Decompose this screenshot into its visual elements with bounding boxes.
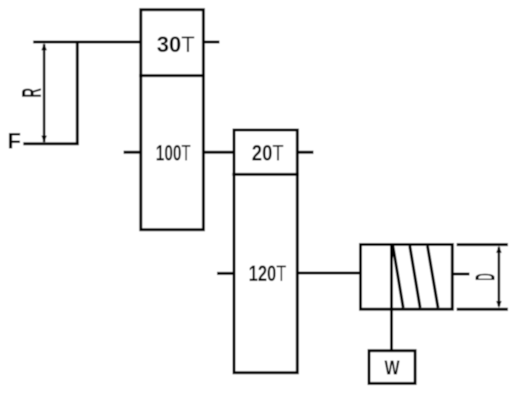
svg-text:W: W xyxy=(384,357,400,379)
svg-text:F: F xyxy=(8,129,21,154)
shaft stub left of 100T xyxy=(124,151,141,154)
dimension line R xyxy=(43,44,46,142)
drum hatch diagonal 2 xyxy=(410,246,420,308)
arrowhead D bottom xyxy=(496,301,502,308)
divider between 30T and 100T xyxy=(139,74,205,77)
arrowhead R top xyxy=(41,43,47,50)
dimension extension line top of D xyxy=(457,243,508,246)
shaft into 30T (crank arm top) xyxy=(33,41,141,44)
drum hatch diagonal 1 xyxy=(393,246,403,308)
divider between 20T and 120T xyxy=(232,173,299,176)
drum hatch diagonal 3 xyxy=(428,246,439,308)
svg-text:120T: 120T xyxy=(249,262,287,287)
crank vertical arm xyxy=(76,42,79,144)
arrowhead R bottom xyxy=(41,136,47,143)
dimension line D xyxy=(498,247,501,307)
shaft between 120T and drum xyxy=(297,272,360,275)
shaft between 100T and 20T xyxy=(203,151,234,154)
svg-text:30T: 30T xyxy=(157,32,195,57)
drum outline xyxy=(361,245,453,310)
crank handle bottom line at F xyxy=(23,142,79,145)
svg-text:R: R xyxy=(15,88,47,98)
shaft stub right of 20T xyxy=(297,151,313,154)
svg-text:20T: 20T xyxy=(252,142,284,166)
arrowhead D top xyxy=(496,246,502,253)
svg-text:100T: 100T xyxy=(156,142,191,166)
shaft stub right of 30T xyxy=(203,41,219,44)
weight box W xyxy=(369,351,415,384)
gear box 30T/100T outline xyxy=(141,10,204,230)
svg-text:D: D xyxy=(470,273,501,280)
shaft stub left of 120T xyxy=(217,272,234,275)
gear box 20T/120T outline xyxy=(234,130,297,373)
shaft stub right of drum xyxy=(452,273,469,276)
rope from drum to weight xyxy=(390,246,393,351)
dimension extension line bottom of D xyxy=(457,308,508,311)
